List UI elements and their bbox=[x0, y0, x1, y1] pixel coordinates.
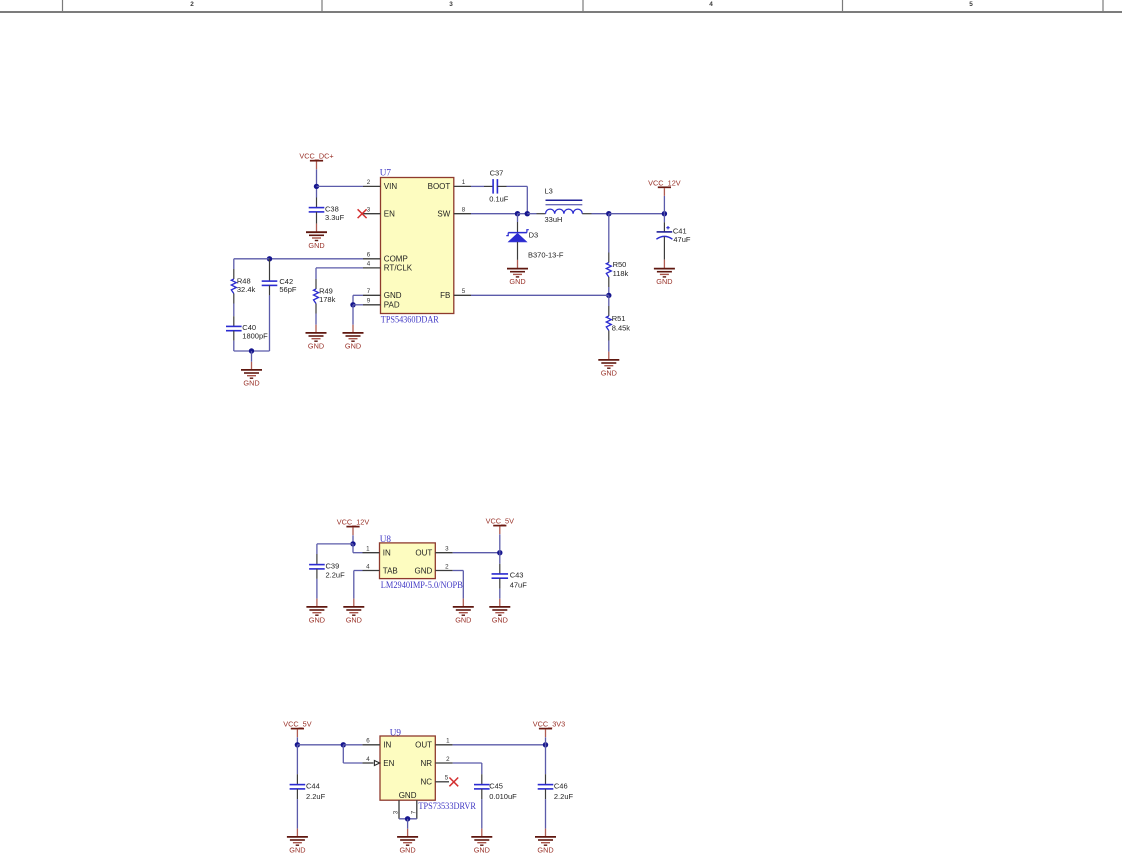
svg-text:VCC_5V: VCC_5V bbox=[486, 517, 515, 526]
wire VCC_12V stem to node (U8) bbox=[352, 535, 354, 544]
svg-text:C46: C46 bbox=[554, 782, 568, 791]
pin 3 (EN) bbox=[363, 213, 381, 215]
svg-text:2.2uF: 2.2uF bbox=[306, 792, 326, 801]
gnd stem R49 bbox=[315, 325, 317, 333]
wire pin7 down to pad node bbox=[352, 295, 354, 305]
pin 5 (FB) bbox=[454, 294, 471, 296]
svg-text:178k: 178k bbox=[319, 295, 336, 304]
svg-text:C43: C43 bbox=[510, 570, 524, 579]
ground symbol bbox=[343, 607, 364, 615]
svg-text:FB: FB bbox=[440, 291, 450, 300]
junction node IN/EN bbox=[341, 742, 346, 747]
svg-text:GND: GND bbox=[601, 369, 617, 378]
lead R49 top bbox=[315, 279, 317, 289]
wire SW node to D3 bbox=[517, 214, 519, 222]
svg-text:R51: R51 bbox=[612, 314, 626, 323]
wire down to C39 bbox=[316, 544, 318, 554]
svg-text:3: 3 bbox=[445, 546, 449, 553]
ground symbol bbox=[306, 333, 327, 341]
junction node pad bbox=[350, 302, 355, 307]
capacitor C40 bbox=[226, 326, 242, 330]
junction node VCC_5V bbox=[497, 550, 502, 555]
lead R50 top bbox=[608, 253, 610, 263]
gnd stem R51 bbox=[608, 352, 610, 360]
gnd stem C39 bbox=[316, 599, 318, 607]
power port VCC_12V bbox=[648, 178, 681, 196]
IC U8 body bbox=[380, 543, 436, 579]
svg-text:GND: GND bbox=[537, 846, 553, 855]
lead R50 bottom bbox=[608, 277, 610, 287]
junction node C37/SW bbox=[525, 211, 530, 216]
lead D3 cathode bbox=[517, 222, 519, 233]
svg-text:56pF: 56pF bbox=[279, 285, 297, 294]
power port VCC_5V bbox=[486, 517, 515, 535]
wire R48 to C40 bbox=[233, 304, 235, 317]
lead C46 top bbox=[545, 774, 547, 784]
capacitor C37 bbox=[493, 179, 497, 194]
svg-text:C39: C39 bbox=[326, 562, 340, 571]
svg-text:TPS73533DRVR: TPS73533DRVR bbox=[418, 801, 476, 811]
svg-text:7: 7 bbox=[410, 810, 417, 814]
wire SW pin to D3 node bbox=[471, 213, 518, 215]
svg-text:3: 3 bbox=[449, 1, 453, 8]
svg-text:C45: C45 bbox=[489, 782, 503, 791]
svg-text:5: 5 bbox=[445, 774, 449, 781]
svg-text:EN: EN bbox=[384, 210, 395, 219]
svg-text:NC: NC bbox=[420, 778, 432, 787]
svg-text:GND: GND bbox=[415, 566, 433, 575]
svg-text:2: 2 bbox=[445, 563, 449, 570]
junction node FB bbox=[606, 293, 611, 298]
svg-text:2: 2 bbox=[190, 1, 194, 8]
svg-text:VCC_3V3: VCC_3V3 bbox=[533, 720, 565, 729]
svg-text:R50: R50 bbox=[613, 260, 627, 269]
svg-text:OUT: OUT bbox=[415, 741, 432, 750]
lead C43 bottom bbox=[499, 578, 501, 589]
svg-text:SW: SW bbox=[437, 210, 450, 219]
svg-text:TPS54360DDAR: TPS54360DDAR bbox=[381, 314, 440, 324]
svg-text:4: 4 bbox=[367, 261, 371, 268]
ruler tick x1103 bbox=[1102, 0, 1104, 12]
wire VCC_5V stem to node (U9) bbox=[296, 737, 298, 745]
U9 pin 1 bbox=[435, 744, 452, 746]
lead R48 bottom bbox=[233, 294, 235, 304]
pin 6 (COMP) bbox=[363, 258, 381, 260]
wire C45 to gnd bbox=[481, 799, 483, 829]
wire NR branch down bbox=[481, 763, 483, 774]
ground symbol bbox=[453, 607, 474, 615]
svg-text:PAD: PAD bbox=[384, 301, 400, 310]
ruler tick x322 bbox=[321, 0, 323, 12]
capacitor C42 bbox=[262, 281, 278, 285]
svg-text:IN: IN bbox=[383, 549, 391, 558]
lead C40 bottom bbox=[233, 331, 235, 341]
U8 pin 4 bbox=[363, 570, 380, 572]
lead C44 top bbox=[296, 774, 298, 784]
svg-text:2: 2 bbox=[446, 756, 450, 763]
lead L3 left bbox=[537, 213, 546, 215]
wire to IN pin bbox=[353, 552, 363, 554]
U9 pin 4 with input arrow bbox=[362, 762, 373, 764]
svg-text:118k: 118k bbox=[613, 269, 629, 278]
lead R49 bottom bbox=[315, 304, 317, 314]
svg-text:0.010uF: 0.010uF bbox=[489, 792, 517, 801]
pin 9 (PAD) bbox=[363, 304, 381, 306]
wire VCC_5V stem to node bbox=[499, 534, 501, 552]
lead C45 top bbox=[481, 774, 483, 784]
ground symbol bbox=[241, 370, 262, 378]
svg-text:GND: GND bbox=[492, 616, 508, 625]
junction node COMP/C42 bbox=[267, 256, 272, 261]
ruler tick x842 bbox=[842, 0, 844, 12]
gnd stem comp network bbox=[251, 362, 253, 370]
ground symbol bbox=[306, 232, 327, 240]
wire node to C43 bbox=[499, 553, 501, 564]
IC U9 body bbox=[380, 736, 435, 800]
svg-text:9: 9 bbox=[367, 298, 371, 305]
lead C41 bottom bbox=[663, 237, 665, 260]
resistor R50 bbox=[606, 263, 611, 278]
capacitor C41 (polarized) bbox=[656, 226, 672, 239]
svg-text:2.2uF: 2.2uF bbox=[554, 792, 574, 801]
svg-text:4: 4 bbox=[366, 563, 370, 570]
wire to gnd stem bbox=[251, 351, 253, 362]
svg-text:U8: U8 bbox=[380, 534, 392, 544]
wire OUT to VCC_3V3 node bbox=[453, 744, 546, 746]
wire D3 node to C37 node bbox=[518, 213, 528, 215]
svg-text:5: 5 bbox=[462, 288, 466, 295]
svg-text:IN: IN bbox=[383, 741, 391, 750]
wire FB node to R51 bbox=[608, 295, 610, 306]
svg-text:8: 8 bbox=[462, 207, 466, 214]
capacitor C38 bbox=[309, 208, 325, 212]
svg-text:TAB: TAB bbox=[383, 566, 398, 575]
wire C42 to bottom node bbox=[269, 295, 271, 351]
capacitor C44 bbox=[290, 785, 306, 789]
gnd stem C43 bbox=[499, 599, 501, 607]
lead C40 top bbox=[233, 316, 235, 326]
svg-text:47uF: 47uF bbox=[673, 235, 691, 244]
svg-text:4: 4 bbox=[709, 1, 713, 8]
wire GND pin 7 bbox=[353, 294, 363, 296]
svg-text:GND: GND bbox=[346, 616, 362, 625]
wire COMP right segment bbox=[270, 258, 364, 260]
gnd stem U8 GND bbox=[462, 599, 464, 607]
svg-text:RT/CLK: RT/CLK bbox=[384, 264, 413, 273]
svg-text:0.1uF: 0.1uF bbox=[489, 195, 509, 204]
lead C42 top bbox=[269, 259, 271, 281]
wire BOOT branch down to SW bbox=[526, 186, 528, 213]
wire NR to C45 bbox=[453, 762, 482, 764]
ruler tick x583 bbox=[582, 0, 584, 12]
wire RT/CLK bbox=[316, 267, 363, 269]
wire node down to C44 bbox=[296, 745, 298, 774]
lead C38 top bbox=[316, 198, 318, 208]
svg-text:GND: GND bbox=[384, 291, 402, 300]
svg-text:GND: GND bbox=[289, 846, 305, 855]
wire FB bbox=[471, 294, 609, 296]
wire down to R48 bbox=[233, 259, 235, 269]
ground symbol bbox=[507, 269, 528, 277]
resistor R49 bbox=[314, 289, 319, 304]
power port VCC_5V bbox=[283, 720, 312, 738]
pin 2 (VIN) bbox=[363, 185, 381, 187]
wire U9 gnd node down bbox=[407, 819, 409, 829]
junction node VCC_12V bbox=[662, 211, 667, 216]
lead C39 bottom bbox=[316, 569, 318, 579]
gnd stem C45 bbox=[481, 829, 483, 837]
lead C46 bottom bbox=[545, 789, 547, 799]
svg-text:L3: L3 bbox=[545, 187, 553, 196]
diode D3 (schottky) bbox=[506, 230, 529, 242]
svg-text:VCC_12V: VCC_12V bbox=[337, 518, 370, 527]
lead D3 anode bbox=[517, 242, 519, 260]
U9 gnd pin 3 bbox=[398, 800, 400, 819]
junction node U9 gnd bbox=[405, 816, 410, 821]
gnd stem D3 bbox=[517, 260, 519, 269]
wire R50 to FB node bbox=[608, 287, 610, 295]
svg-text:D3: D3 bbox=[529, 231, 539, 240]
gnd stem C38 bbox=[316, 224, 318, 233]
lead C45 bottom bbox=[481, 789, 483, 799]
svg-text:32.4k: 32.4k bbox=[237, 285, 256, 294]
svg-text:1: 1 bbox=[446, 738, 450, 745]
inductor L3 bbox=[546, 200, 583, 213]
wire OUT to VCC_5V node bbox=[453, 552, 500, 554]
ground symbol bbox=[535, 837, 556, 845]
svg-text:GND: GND bbox=[308, 241, 324, 250]
wire to EN pin bbox=[343, 762, 362, 764]
wire VCC_3V3 stem to node bbox=[545, 737, 547, 745]
wire node to C38 bbox=[316, 189, 318, 198]
wire C44 to gnd bbox=[296, 799, 298, 829]
wire C40 to bottom node bbox=[233, 341, 235, 351]
wire COMP left segment bbox=[234, 258, 270, 260]
junction node D3/SW bbox=[515, 211, 520, 216]
resistor R51 bbox=[606, 316, 611, 331]
power port VCC_3V3 bbox=[533, 720, 565, 738]
wire C39 to gnd bbox=[316, 579, 318, 599]
sheet border ruler line bbox=[0, 11, 1122, 13]
ground symbol bbox=[654, 269, 675, 277]
lead R51 top bbox=[608, 306, 610, 316]
ground symbol bbox=[598, 360, 619, 368]
U8 pin 1 bbox=[363, 552, 380, 554]
ruler tick x62 bbox=[62, 0, 64, 12]
U9 pin 2 bbox=[435, 762, 452, 764]
wire bottom R48/C42 join bbox=[234, 350, 270, 352]
wire node to C39 bbox=[317, 543, 353, 545]
lead L3 right bbox=[582, 213, 591, 215]
wire C43 to gnd bbox=[499, 589, 501, 599]
wire node to VIN pin bbox=[317, 185, 364, 187]
svg-text:7: 7 bbox=[367, 288, 371, 295]
ground symbol bbox=[306, 607, 327, 615]
U8 pin 3 bbox=[435, 552, 452, 554]
junction node U9 in bbox=[295, 742, 300, 747]
wire VCC_12V stem to node bbox=[663, 196, 665, 214]
ground symbol bbox=[343, 333, 364, 341]
wire TAB to gnd bbox=[353, 571, 355, 599]
svg-text:GND: GND bbox=[243, 379, 259, 388]
junction node VCC_3V3 bbox=[543, 742, 548, 747]
svg-text:VCC_5V: VCC_5V bbox=[283, 720, 312, 729]
U9 gnd pin 7 bbox=[416, 800, 418, 819]
svg-text:4: 4 bbox=[366, 756, 370, 763]
svg-text:8.45k: 8.45k bbox=[612, 324, 631, 333]
svg-text:C38: C38 bbox=[325, 204, 339, 213]
wire to EN branch node bbox=[297, 744, 343, 746]
wire SW to L3 bbox=[527, 213, 536, 215]
lead R51 bottom bbox=[608, 331, 610, 341]
svg-text:GND: GND bbox=[345, 342, 361, 351]
wire R49 to gnd bbox=[315, 314, 317, 325]
svg-text:1: 1 bbox=[366, 546, 370, 553]
wire TAB pin bbox=[354, 570, 363, 572]
pin 1 (BOOT) bbox=[454, 185, 471, 187]
wire VCC_DC+ stem to node bbox=[316, 169, 318, 186]
svg-text:3: 3 bbox=[393, 810, 400, 814]
gnd stem TAB bbox=[353, 599, 355, 607]
svg-text:GND: GND bbox=[474, 846, 490, 855]
wire EN branch down bbox=[342, 745, 344, 763]
U9 pin 5 bbox=[435, 781, 449, 783]
svg-text:VCC_DC+: VCC_DC+ bbox=[299, 152, 333, 161]
svg-text:COMP: COMP bbox=[384, 255, 408, 264]
pin 8 (SW) bbox=[454, 213, 471, 215]
svg-text:VIN: VIN bbox=[384, 182, 398, 191]
junction node VIN bbox=[314, 184, 319, 189]
svg-text:3: 3 bbox=[367, 207, 371, 214]
wire to IN pin bbox=[343, 744, 362, 746]
lead C39 top bbox=[316, 554, 318, 565]
wire R51 to gnd bbox=[608, 341, 610, 352]
wire U8 GND pin bbox=[453, 570, 464, 572]
wire node to R50 bbox=[608, 214, 610, 253]
junction node VCC_12V/R50 bbox=[606, 211, 611, 216]
no-connect X on NC pin bbox=[449, 778, 458, 787]
U8 pin 2 bbox=[435, 570, 452, 572]
lead C37 right bbox=[497, 185, 506, 187]
capacitor C45 bbox=[474, 785, 490, 789]
svg-text:3.3uF: 3.3uF bbox=[325, 213, 345, 222]
svg-text:BOOT: BOOT bbox=[428, 182, 451, 191]
no-connect X on EN pin bbox=[358, 209, 367, 218]
wire node down to C46 bbox=[545, 745, 547, 774]
svg-text:VCC_12V: VCC_12V bbox=[648, 178, 681, 187]
power port VCC_12V bbox=[337, 518, 370, 536]
svg-text:6: 6 bbox=[366, 738, 370, 745]
U9 pin 6 bbox=[362, 744, 380, 746]
lead C44 bottom bbox=[296, 789, 298, 799]
wire node to C41 bbox=[663, 214, 665, 223]
junction node comp gnd bbox=[249, 348, 254, 353]
svg-text:B370-13-F: B370-13-F bbox=[528, 251, 564, 260]
svg-text:U7: U7 bbox=[380, 168, 392, 178]
lead C37 left bbox=[484, 185, 493, 187]
wire C46 to gnd bbox=[545, 799, 547, 829]
ground symbol bbox=[489, 607, 510, 615]
svg-text:NR: NR bbox=[420, 759, 432, 768]
wire U9 gnd pins join bbox=[399, 818, 417, 820]
svg-text:U9: U9 bbox=[390, 728, 402, 738]
pin 4 (RT/CLK) bbox=[363, 267, 381, 269]
wire PAD pin 9 bbox=[353, 304, 363, 306]
ground symbol bbox=[471, 837, 492, 845]
wire pad node to gnd bbox=[352, 305, 354, 325]
junction node U8 in bbox=[350, 541, 355, 546]
gnd stem C41 bbox=[663, 260, 665, 269]
lead C41 top bbox=[663, 222, 665, 232]
svg-text:GND: GND bbox=[509, 277, 525, 286]
gnd stem C46 bbox=[545, 829, 547, 837]
gnd stem U7 pad bbox=[352, 325, 354, 333]
wire BOOT to C37 bbox=[471, 185, 484, 187]
svg-text:5: 5 bbox=[969, 1, 973, 8]
lead R48 top bbox=[233, 269, 235, 279]
lead C38 bottom bbox=[316, 212, 318, 224]
power port VCC_DC+ bbox=[299, 152, 333, 170]
lead C43 top bbox=[499, 564, 501, 574]
capacitor C43 bbox=[492, 574, 509, 578]
wire down to R49 bbox=[315, 268, 317, 279]
gnd stem C44 bbox=[296, 829, 298, 837]
wire to VCC_12V node bbox=[609, 213, 665, 215]
svg-text:1: 1 bbox=[462, 179, 466, 186]
svg-text:GND: GND bbox=[399, 846, 415, 855]
svg-text:1800pF: 1800pF bbox=[242, 332, 268, 341]
svg-text:GND: GND bbox=[309, 616, 325, 625]
wire node down to IN bbox=[352, 544, 354, 553]
svg-text:EN: EN bbox=[383, 759, 394, 768]
gnd stem U9 bbox=[407, 829, 409, 837]
wire L3 to R50 node bbox=[592, 213, 609, 215]
svg-text:6: 6 bbox=[367, 252, 371, 259]
capacitor C39 bbox=[309, 565, 325, 569]
IC U7 body bbox=[381, 178, 454, 314]
svg-text:GND: GND bbox=[308, 342, 324, 351]
svg-text:GND: GND bbox=[399, 791, 417, 800]
pin 7 (GND) bbox=[363, 294, 381, 296]
svg-text:LM2940IMP-5.0/NOPB: LM2940IMP-5.0/NOPB bbox=[381, 580, 463, 590]
wire U8 GND down bbox=[462, 571, 464, 599]
capacitor C46 bbox=[538, 785, 554, 789]
svg-text:OUT: OUT bbox=[415, 549, 432, 558]
svg-text:47uF: 47uF bbox=[510, 581, 528, 590]
svg-text:2: 2 bbox=[367, 179, 371, 186]
svg-text:GND: GND bbox=[656, 277, 672, 286]
svg-text:33uH: 33uH bbox=[545, 215, 563, 224]
svg-text:C37: C37 bbox=[490, 168, 504, 177]
resistor R48 bbox=[231, 279, 236, 294]
lead C42 bottom bbox=[269, 285, 271, 295]
svg-text:2.2uF: 2.2uF bbox=[326, 570, 346, 579]
ground symbol bbox=[287, 837, 308, 845]
svg-text:C44: C44 bbox=[306, 782, 320, 791]
svg-text:GND: GND bbox=[455, 616, 471, 625]
wire C37 to SW corner bbox=[507, 185, 528, 187]
ground symbol bbox=[397, 837, 418, 845]
